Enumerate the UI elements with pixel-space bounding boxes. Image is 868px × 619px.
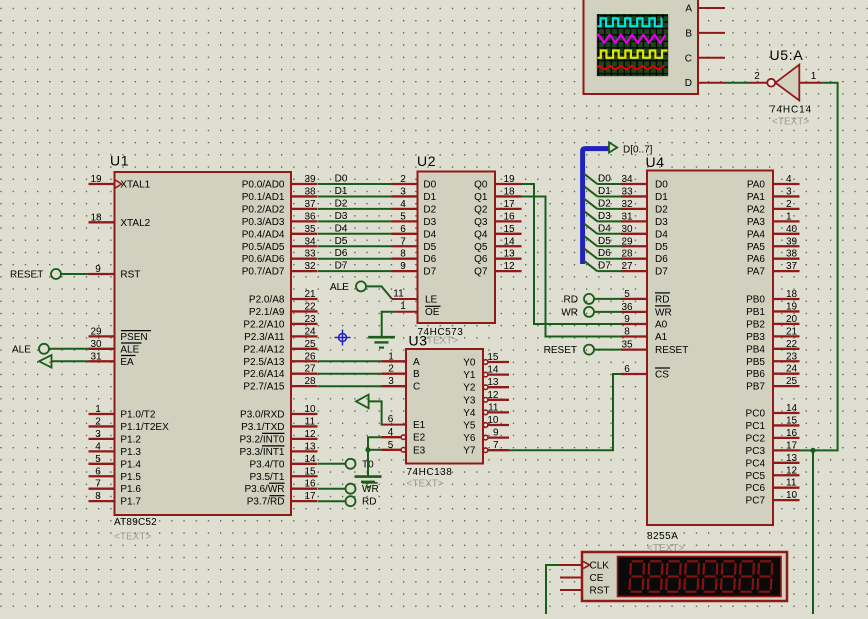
svg-text:PSEN: PSEN bbox=[120, 332, 147, 343]
svg-text:A1: A1 bbox=[655, 332, 668, 343]
U1 pin 32 P0.7/AD7 bbox=[242, 261, 318, 278]
terminal ALE (U2 side) bbox=[330, 281, 366, 293]
wire U2.Q0 to U4.A0 bbox=[522, 184, 622, 324]
bus entry + wire D7 to U4.D7 bbox=[584, 261, 621, 272]
svg-text:A: A bbox=[413, 357, 420, 368]
svg-text:Y1: Y1 bbox=[463, 370, 476, 381]
svg-text:16: 16 bbox=[304, 479, 316, 490]
display digits (8x seven-segment) bbox=[630, 561, 773, 591]
svg-text:D6: D6 bbox=[335, 248, 348, 259]
terminal RD (U4 side) bbox=[564, 294, 594, 306]
svg-text:21: 21 bbox=[304, 289, 316, 300]
U1 pin 9 RST bbox=[89, 264, 141, 281]
U4 pin 3 PA1 bbox=[747, 186, 800, 203]
svg-text:27: 27 bbox=[621, 261, 633, 272]
svg-text:8: 8 bbox=[624, 327, 630, 338]
svg-text:D2: D2 bbox=[598, 198, 611, 209]
svg-text:15: 15 bbox=[487, 352, 499, 363]
svg-text:33: 33 bbox=[621, 186, 633, 197]
svg-text:B: B bbox=[685, 28, 692, 39]
U4 pin 9 A0 bbox=[621, 314, 668, 331]
svg-text:P3.1/TXD: P3.1/TXD bbox=[241, 422, 284, 433]
svg-text:D1: D1 bbox=[655, 192, 668, 203]
svg-text:38: 38 bbox=[786, 249, 798, 260]
svg-text:P0.0/AD0: P0.0/AD0 bbox=[242, 180, 285, 191]
svg-text:36: 36 bbox=[304, 211, 316, 222]
svg-text:C: C bbox=[685, 53, 692, 64]
U4 pin 24 PB6 bbox=[746, 364, 799, 381]
U3 pin 2 B bbox=[382, 364, 421, 381]
svg-text:32: 32 bbox=[304, 261, 316, 272]
svg-text:Y2: Y2 bbox=[463, 383, 476, 394]
svg-text:5: 5 bbox=[624, 289, 630, 300]
svg-text:Q2: Q2 bbox=[474, 204, 488, 215]
svg-text:14: 14 bbox=[487, 365, 499, 376]
wire D1 U1.P0.1 to U2.D1 bbox=[318, 186, 392, 197]
U3 pin 12 Y3 bbox=[463, 390, 509, 407]
U2 pin 1 OE bbox=[395, 301, 441, 318]
U3 pin 5 E3 bbox=[382, 440, 426, 457]
U1 pin 39 P0.0/AD0 bbox=[242, 174, 318, 191]
svg-text:D4: D4 bbox=[335, 223, 348, 234]
U4 pin 27 D7 bbox=[621, 261, 668, 278]
U4 pin 31 D3 bbox=[621, 211, 668, 228]
svg-text:PC0: PC0 bbox=[746, 409, 766, 420]
U1 pin 29 PSEN bbox=[89, 326, 152, 343]
svg-text:4: 4 bbox=[95, 441, 101, 452]
oscilloscope pin C bbox=[698, 57, 725, 59]
svg-text:WR: WR bbox=[561, 307, 578, 318]
U4 pin 23 PB5 bbox=[746, 351, 799, 368]
svg-text:D[0..7]: D[0..7] bbox=[623, 145, 653, 156]
wire RESET terminal to U4.RESET bbox=[594, 349, 621, 351]
terminal ALE (left) bbox=[12, 344, 49, 356]
svg-text:D3: D3 bbox=[335, 211, 348, 222]
svg-text:ALE: ALE bbox=[120, 344, 139, 355]
svg-text:10: 10 bbox=[487, 415, 499, 426]
svg-text:24: 24 bbox=[304, 326, 316, 337]
U1 pin 11 P3.1/TXD bbox=[241, 416, 317, 433]
svg-text:PC7: PC7 bbox=[746, 496, 766, 507]
U3 pin 7 Y7 bbox=[463, 440, 509, 457]
svg-text:D4: D4 bbox=[423, 229, 436, 240]
svg-text:PA1: PA1 bbox=[747, 192, 766, 203]
svg-text:PB0: PB0 bbox=[746, 295, 765, 306]
svg-text:ALE: ALE bbox=[330, 282, 349, 293]
U5:A pin 1 (input) bbox=[799, 71, 822, 83]
svg-text:PC3: PC3 bbox=[746, 446, 766, 457]
svg-text:11: 11 bbox=[488, 402, 499, 413]
display pin CE bbox=[560, 577, 582, 579]
svg-text:P1.0/T2: P1.0/T2 bbox=[120, 410, 155, 421]
U3 pin 4 E2 bbox=[382, 427, 426, 444]
U4 pin 17 PC3 bbox=[746, 440, 800, 457]
U4 pin 39 PA5 bbox=[747, 236, 800, 253]
wire U2.Q1 to U4.A1 bbox=[522, 197, 622, 337]
wire D5 U1.P0.5 to U2.D5 bbox=[318, 236, 392, 247]
svg-text:17: 17 bbox=[503, 199, 515, 210]
svg-text:D2: D2 bbox=[335, 198, 348, 209]
svg-text:37: 37 bbox=[304, 199, 316, 210]
svg-text:14: 14 bbox=[304, 454, 316, 465]
U2 pin 13 Q6 bbox=[474, 249, 521, 266]
terminal T0 bbox=[346, 459, 375, 471]
svg-text:P0.1/AD1: P0.1/AD1 bbox=[242, 192, 285, 203]
bus D[0..7] bbox=[583, 149, 609, 264]
svg-text:P3.2/INT0: P3.2/INT0 bbox=[239, 434, 284, 445]
svg-text:4: 4 bbox=[388, 427, 394, 438]
svg-text:LE: LE bbox=[425, 295, 438, 306]
svg-text:6: 6 bbox=[95, 466, 101, 477]
svg-text:P2.5/A13: P2.5/A13 bbox=[243, 357, 285, 368]
svg-text:PA4: PA4 bbox=[747, 229, 766, 240]
U2 pin 15 Q4 bbox=[474, 224, 521, 241]
U2 pin 7 D5 bbox=[392, 236, 437, 253]
svg-text:PB2: PB2 bbox=[746, 319, 765, 330]
svg-text:2: 2 bbox=[786, 199, 792, 210]
svg-text:Q0: Q0 bbox=[474, 180, 488, 191]
wire EA arrow to U1 pin31 bbox=[52, 360, 89, 362]
wire ALE terminal to U1 pin30 bbox=[49, 348, 89, 350]
svg-text:29: 29 bbox=[90, 326, 102, 337]
svg-text:21: 21 bbox=[786, 326, 798, 337]
U1 pin 7 P1.6 bbox=[89, 479, 142, 496]
svg-text:4: 4 bbox=[786, 174, 792, 185]
U1 pin 38 P0.1/AD1 bbox=[242, 186, 318, 203]
svg-text:15: 15 bbox=[786, 415, 798, 426]
svg-text:18: 18 bbox=[503, 186, 515, 197]
U1 pin 4 P1.3 bbox=[89, 441, 142, 458]
svg-text:A: A bbox=[685, 4, 692, 15]
wire U3.Y7 to U4.CS bbox=[509, 374, 621, 450]
svg-text:AT89C52: AT89C52 bbox=[114, 517, 157, 528]
U1 pin 22 P2.1/A9 bbox=[249, 301, 318, 318]
wire A14 U1.P2.6 to U3.B bbox=[318, 373, 382, 375]
svg-text:18: 18 bbox=[90, 212, 102, 223]
bus entry + wire D3 to U4.D3 bbox=[584, 211, 621, 222]
bus terminal arrow D[0..7] bbox=[609, 142, 653, 155]
svg-text:2: 2 bbox=[400, 174, 406, 185]
U1 pin 30 ALE bbox=[89, 339, 142, 356]
svg-text:33: 33 bbox=[304, 249, 316, 260]
svg-text:PC2: PC2 bbox=[746, 433, 766, 444]
U1 pin 28 P2.7/A15 bbox=[243, 376, 317, 393]
U3 pin 9 Y6 bbox=[463, 428, 509, 445]
svg-text:D1: D1 bbox=[335, 186, 348, 197]
U2 pin 3 D1 bbox=[392, 186, 437, 203]
U3 pin 3 C bbox=[382, 376, 421, 393]
svg-text:13: 13 bbox=[487, 377, 499, 388]
svg-text:PB4: PB4 bbox=[746, 344, 765, 355]
U4 pin 28 D6 bbox=[621, 249, 668, 266]
svg-text:5: 5 bbox=[400, 211, 406, 222]
bus entry + wire D1 to U4.D1 bbox=[584, 186, 621, 197]
svg-text:PB5: PB5 bbox=[746, 357, 765, 368]
svg-text:Q4: Q4 bbox=[474, 229, 488, 240]
svg-text:D4: D4 bbox=[598, 223, 611, 234]
svg-text:D: D bbox=[685, 78, 692, 89]
waveform channel C (yellow) bbox=[598, 51, 668, 58]
U2 pin 16 Q3 bbox=[474, 211, 521, 228]
terminal RESET bbox=[10, 269, 61, 281]
U2 pin 19 Q0 bbox=[474, 174, 521, 191]
svg-text:P1.3: P1.3 bbox=[120, 447, 141, 458]
svg-text:14: 14 bbox=[503, 236, 515, 247]
svg-text:30: 30 bbox=[621, 224, 633, 235]
svg-text:D7: D7 bbox=[655, 267, 668, 278]
svg-text:PA3: PA3 bbox=[747, 217, 766, 228]
oscilloscope pin D bbox=[698, 82, 725, 84]
U4 pin 10 PC7 bbox=[746, 490, 800, 507]
inverter U5:A 74HC14 (mirrored) bbox=[767, 47, 812, 128]
svg-text:26: 26 bbox=[304, 351, 316, 362]
svg-text:P2.1/A9: P2.1/A9 bbox=[249, 307, 285, 318]
svg-text:P0.7/AD7: P0.7/AD7 bbox=[242, 267, 285, 278]
wire U1 P3.7 to RD terminal bbox=[318, 500, 346, 502]
U4 pin 14 PC0 bbox=[746, 403, 800, 420]
svg-text:15: 15 bbox=[503, 224, 515, 235]
svg-text:9: 9 bbox=[624, 314, 630, 325]
U1 pin 24 P2.3/A11 bbox=[244, 326, 317, 343]
svg-text:D6: D6 bbox=[655, 254, 668, 265]
U3 pin 6 E1 bbox=[382, 414, 426, 431]
svg-text:PC1: PC1 bbox=[746, 421, 766, 432]
U5:A pin 2 (output) bbox=[749, 71, 767, 83]
U4 pin 37 PA7 bbox=[747, 261, 800, 278]
svg-text:3: 3 bbox=[786, 186, 792, 197]
svg-text:19: 19 bbox=[786, 301, 798, 312]
svg-text:17: 17 bbox=[304, 491, 316, 502]
svg-text:D0: D0 bbox=[655, 180, 668, 191]
terminal RD bbox=[346, 496, 377, 508]
svg-text:22: 22 bbox=[786, 339, 798, 350]
svg-text:7: 7 bbox=[95, 479, 101, 490]
svg-text:D4: D4 bbox=[655, 229, 668, 240]
svg-text:P3.4/T0: P3.4/T0 bbox=[249, 459, 284, 470]
wire D3 U1.P0.3 to U2.D3 bbox=[318, 211, 392, 222]
waveform channel A (cyan) bbox=[598, 18, 662, 26]
U1 pin 17 P3.7/RD bbox=[247, 491, 318, 508]
svg-text:WR: WR bbox=[655, 307, 672, 318]
svg-text:P2.7/A15: P2.7/A15 bbox=[243, 382, 285, 393]
svg-text:2: 2 bbox=[95, 416, 101, 427]
svg-text:34: 34 bbox=[621, 174, 633, 185]
U1 pin 8 P1.7 bbox=[89, 491, 142, 508]
U3 pin 10 Y5 bbox=[463, 415, 509, 432]
wire A15 U1.P2.7 to U3.C bbox=[318, 385, 382, 387]
U1 pin 21 P2.0/A8 bbox=[249, 289, 318, 306]
U4 pin 33 D1 bbox=[621, 186, 668, 203]
wire U5:A pin1 down to PC3 node bbox=[813, 83, 838, 451]
svg-text:35: 35 bbox=[304, 224, 316, 235]
U1 pin 31 EA bbox=[89, 351, 136, 368]
U1 pin 33 P0.6/AD6 bbox=[242, 249, 318, 266]
svg-text:D7: D7 bbox=[335, 261, 348, 272]
svg-text:P1.6: P1.6 bbox=[120, 484, 141, 495]
svg-text:32: 32 bbox=[621, 199, 633, 210]
U3 pin 11 Y4 bbox=[463, 402, 509, 419]
svg-text:ALE: ALE bbox=[12, 344, 31, 355]
terminal RESET (U4 side) bbox=[544, 345, 594, 357]
svg-text:E3: E3 bbox=[413, 445, 426, 456]
svg-text:1: 1 bbox=[786, 211, 792, 222]
svg-text:24: 24 bbox=[786, 364, 798, 375]
svg-text:P2.4/A12: P2.4/A12 bbox=[243, 344, 285, 355]
svg-text:EA: EA bbox=[120, 357, 134, 368]
svg-text:P0.2/AD2: P0.2/AD2 bbox=[242, 204, 285, 215]
U4 pin 8 A1 bbox=[621, 327, 668, 344]
svg-text:2: 2 bbox=[754, 71, 760, 82]
U4 pin 6 CS bbox=[621, 364, 670, 381]
svg-text:39: 39 bbox=[786, 236, 798, 247]
svg-text:RD: RD bbox=[362, 497, 376, 508]
svg-text:7: 7 bbox=[493, 440, 499, 451]
svg-text:36: 36 bbox=[621, 302, 633, 313]
svg-text:12: 12 bbox=[304, 429, 316, 440]
svg-text:P2.2/A10: P2.2/A10 bbox=[243, 319, 285, 330]
svg-text:C: C bbox=[413, 382, 420, 393]
svg-text:P0.4/AD4: P0.4/AD4 bbox=[242, 229, 285, 240]
svg-text:RD: RD bbox=[655, 294, 669, 305]
svg-text:D5: D5 bbox=[423, 242, 436, 253]
origin marker (blue crosshair) bbox=[335, 330, 351, 346]
svg-text:D0: D0 bbox=[598, 174, 611, 185]
U1 pin 5 P1.4 bbox=[89, 454, 142, 471]
U4 pin 30 D4 bbox=[621, 224, 668, 241]
svg-text:31: 31 bbox=[621, 211, 633, 222]
terminal input arrow EA bbox=[39, 355, 52, 367]
svg-text:B: B bbox=[413, 369, 420, 380]
svg-text:Y5: Y5 bbox=[463, 421, 476, 432]
svg-text:Y3: Y3 bbox=[463, 395, 476, 406]
svg-text:PB3: PB3 bbox=[746, 332, 765, 343]
U2 pin 5 D3 bbox=[392, 211, 437, 228]
svg-text:38: 38 bbox=[304, 186, 316, 197]
svg-text:P2.6/A14: P2.6/A14 bbox=[243, 369, 285, 380]
svg-text:1: 1 bbox=[400, 301, 406, 312]
svg-text:PA6: PA6 bbox=[747, 254, 766, 265]
U4 pin 16 PC2 bbox=[746, 428, 800, 445]
U2 pin 6 D4 bbox=[392, 224, 437, 241]
svg-text:D6: D6 bbox=[598, 248, 611, 259]
svg-text:P3.0/RXD: P3.0/RXD bbox=[240, 410, 284, 421]
svg-text:3: 3 bbox=[400, 186, 406, 197]
U1 pin 27 P2.6/A14 bbox=[243, 364, 317, 381]
svg-text:12: 12 bbox=[487, 390, 499, 401]
U4 pin 29 D5 bbox=[621, 236, 668, 253]
svg-text:P2.0/A8: P2.0/A8 bbox=[249, 295, 285, 306]
display pin CLK bbox=[560, 564, 582, 566]
U3 pin 13 Y2 bbox=[463, 377, 509, 394]
wire E1 arrow to U3.E1 bbox=[369, 401, 383, 424]
display body (8-digit 7-seg) bbox=[582, 552, 787, 601]
IC U1 AT89C52 body bbox=[110, 153, 291, 543]
U1 pin 36 P0.3/AD3 bbox=[242, 211, 318, 228]
svg-text:D0: D0 bbox=[335, 174, 348, 185]
svg-text:D1: D1 bbox=[598, 186, 611, 197]
svg-text:18: 18 bbox=[786, 289, 798, 300]
wire PC3 node down off-page bbox=[812, 450, 814, 614]
U4 pin 25 PB7 bbox=[746, 376, 799, 393]
terminal WR (U4 side) bbox=[561, 307, 594, 319]
svg-text:D6: D6 bbox=[423, 254, 436, 265]
svg-text:29: 29 bbox=[621, 236, 633, 247]
svg-text:4: 4 bbox=[400, 199, 406, 210]
U4 pin 38 PA6 bbox=[747, 249, 800, 266]
bus entry + wire D2 to U4.D2 bbox=[584, 198, 621, 209]
svg-text:RST: RST bbox=[590, 586, 610, 597]
U4 pin 15 PC1 bbox=[746, 415, 800, 432]
svg-text:14: 14 bbox=[786, 403, 798, 414]
svg-text:RESET: RESET bbox=[544, 345, 577, 356]
wire WR terminal to U4.WR bbox=[594, 311, 621, 313]
U2 pin 11 LE bbox=[392, 289, 438, 306]
U4 pin 1 PA3 bbox=[747, 211, 800, 228]
U4 pin 19 PB1 bbox=[746, 301, 799, 318]
svg-text:8: 8 bbox=[95, 491, 101, 502]
svg-text:D5: D5 bbox=[335, 236, 348, 247]
svg-text:<TEXT>: <TEXT> bbox=[407, 478, 444, 489]
U4 pin 18 PB0 bbox=[746, 289, 799, 306]
wire D2 U1.P0.2 to U2.D2 bbox=[318, 198, 392, 209]
svg-text:8: 8 bbox=[400, 249, 406, 260]
svg-text:34: 34 bbox=[304, 236, 316, 247]
svg-text:D0: D0 bbox=[423, 180, 436, 191]
oscilloscope screen bbox=[597, 14, 668, 76]
svg-text:D7: D7 bbox=[423, 267, 436, 278]
svg-text:28: 28 bbox=[304, 376, 316, 387]
svg-text:PB6: PB6 bbox=[746, 369, 765, 380]
U4 pin 5 RD bbox=[621, 289, 670, 306]
terminal input arrow E1 bbox=[356, 395, 369, 409]
svg-text:19: 19 bbox=[90, 174, 102, 185]
U1 pin 23 P2.2/A10 bbox=[243, 314, 317, 331]
svg-text:D5: D5 bbox=[655, 242, 668, 253]
svg-text:OE: OE bbox=[425, 307, 440, 318]
svg-text:17: 17 bbox=[786, 440, 798, 451]
U1 pin 13 P3.3/INT1 bbox=[239, 441, 317, 458]
svg-text:RESET: RESET bbox=[10, 270, 43, 281]
wire ALE to U2.LE bbox=[366, 286, 392, 299]
svg-text:E2: E2 bbox=[413, 433, 426, 444]
wire U1 P3.4 to T0 terminal bbox=[318, 463, 346, 465]
svg-text:74HC138: 74HC138 bbox=[407, 467, 453, 478]
svg-text:P3.6/WR: P3.6/WR bbox=[244, 484, 284, 495]
U4 pin 40 PA4 bbox=[747, 224, 800, 241]
svg-text:D2: D2 bbox=[655, 204, 668, 215]
svg-text:23: 23 bbox=[304, 314, 316, 325]
bus entry + wire D4 to U4.D4 bbox=[584, 223, 621, 234]
svg-text:11: 11 bbox=[786, 478, 797, 489]
svg-text:20: 20 bbox=[786, 314, 798, 325]
U4 pin 12 PC5 bbox=[746, 465, 800, 482]
svg-text:5: 5 bbox=[388, 440, 394, 451]
svg-text:RD: RD bbox=[564, 294, 578, 305]
U1 pin 2 P1.1/T2EX bbox=[89, 416, 170, 433]
U2 pin 9 D7 bbox=[392, 261, 437, 278]
svg-text:P1.5: P1.5 bbox=[120, 472, 141, 483]
junction E3 node bbox=[365, 447, 370, 452]
svg-text:27: 27 bbox=[304, 364, 316, 375]
U1 pin 6 P1.5 bbox=[89, 466, 142, 483]
wire D4 U1.P0.4 to U2.D4 bbox=[318, 223, 392, 234]
svg-text:D3: D3 bbox=[655, 217, 668, 228]
bus entry + wire D5 to U4.D5 bbox=[584, 236, 621, 247]
svg-text:P0.3/AD3: P0.3/AD3 bbox=[242, 217, 285, 228]
svg-text:PA0: PA0 bbox=[747, 180, 766, 191]
svg-text:6: 6 bbox=[624, 364, 630, 375]
wire U2.OE to ground bbox=[382, 312, 395, 337]
